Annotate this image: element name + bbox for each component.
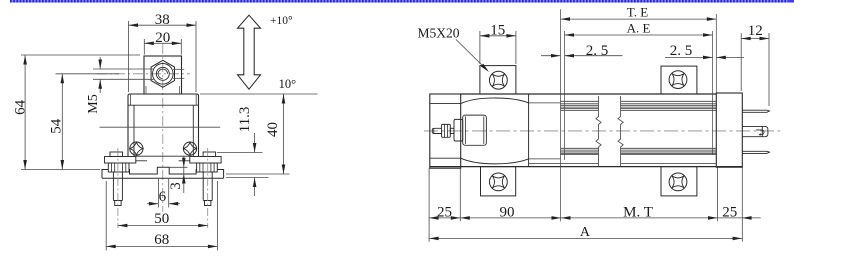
hex nut: [151, 60, 174, 87]
svg-text:15: 15: [490, 23, 505, 39]
shaft rod tip: [432, 128, 441, 133]
nut inner circle: [156, 67, 169, 80]
svg-text:20: 20: [155, 30, 170, 46]
stroke limit line right outer ext: [715, 14, 717, 93]
dim 2.5 left: [541, 55, 561, 57]
bottom clamp block right: [661, 167, 697, 196]
tilt double arrow: [238, 15, 261, 89]
left view horizontal centerline (shaft axis): [97, 73, 190, 75]
stroke limit line left outer: [560, 9, 562, 221]
nut outer circle: [153, 64, 174, 85]
top blue border line: [10, 0, 794, 2]
hex screw right (down): [202, 172, 204, 201]
svg-text:40: 40: [265, 122, 281, 137]
break line 2: [618, 96, 623, 166]
svg-text:+10°: +10°: [270, 15, 293, 27]
body bottom edge: [430, 166, 743, 168]
svg-text:54: 54: [49, 118, 65, 134]
mount bracket right: [203, 152, 216, 157]
side view axis centerline: [424, 130, 780, 132]
mount bracket left: [110, 152, 123, 157]
svg-text:12: 12: [748, 23, 763, 39]
top plate (hat): [128, 94, 199, 105]
dim A.E: [565, 34, 713, 36]
saddle right edge: [528, 94, 530, 167]
svg-text:90: 90: [500, 205, 515, 221]
top clamp screw left: [490, 71, 508, 89]
dim T.E: [561, 18, 717, 20]
saddle top arc: [461, 98, 529, 104]
svg-text:6: 6: [159, 189, 167, 205]
svg-text:25: 25: [437, 205, 452, 221]
svg-text:68: 68: [154, 232, 169, 248]
terminal pin bottom: [742, 151, 769, 153]
shaft boss: [454, 119, 463, 141]
terminal pin middle with cap: [742, 125, 764, 127]
svg-text:M. T: M. T: [623, 205, 653, 221]
bottom dim arrows: [429, 216, 439, 220]
saddle bottom arc: [461, 158, 529, 164]
svg-text:38: 38: [155, 12, 170, 28]
svg-text:M5X20: M5X20: [418, 26, 460, 41]
bottom dim extension lines: [428, 168, 430, 242]
nut flat lines right: [173, 68, 184, 70]
dim 2.5 right: [665, 56, 713, 58]
dim 12: [741, 38, 769, 40]
dim 64: [24, 55, 26, 170]
body top edge: [461, 93, 717, 95]
svg-text:T. E: T. E: [627, 5, 648, 20]
rod nut: [442, 124, 451, 137]
terminal pin top: [742, 110, 769, 112]
dim 54: [61, 74, 63, 170]
shaft thread arc: [158, 69, 168, 79]
body inner lines: [133, 105, 135, 156]
bottom clamp screw left: [490, 173, 508, 191]
dim M5: [93, 68, 154, 70]
svg-text:A: A: [580, 225, 591, 240]
dim 6: [157, 179, 159, 208]
svg-text:2. 5: 2. 5: [586, 43, 609, 59]
svg-text:3: 3: [168, 182, 184, 190]
dim 15: [480, 35, 516, 37]
svg-text:25: 25: [722, 204, 737, 220]
left end block: [430, 94, 461, 168]
dim 38: [129, 24, 197, 26]
dim 20: [144, 42, 181, 44]
stroke limit line right inner: [712, 31, 714, 155]
cross screw left (front view): [130, 142, 143, 155]
right end block: [716, 93, 742, 167]
dim 3: [169, 166, 187, 168]
base plate: [102, 167, 224, 178]
svg-text:A. E: A. E: [627, 21, 651, 36]
top clamp screw right: [669, 71, 687, 89]
svg-text:10°: 10°: [279, 77, 297, 91]
nut block (shaft housing): [144, 56, 182, 94]
dim 68: [106, 245, 217, 247]
dim 40: [283, 94, 285, 174]
guide rails: [529, 102, 561, 104]
block base chamfer ticks: [145, 86, 147, 94]
top clamp block left: [480, 66, 516, 94]
end block inner lines: [430, 103, 461, 105]
reference line through body: [100, 126, 221, 128]
cross screw right (front view): [183, 142, 196, 155]
body sides: [127, 105, 129, 156]
hat top extension line: [200, 93, 318, 95]
dim 11.3: [217, 152, 263, 154]
bottom clamp block left: [481, 167, 516, 196]
break line 1: [596, 96, 601, 166]
stroke limit line left inner: [564, 31, 566, 160]
svg-text:11.3: 11.3: [237, 107, 253, 133]
svg-text:64: 64: [12, 99, 28, 115]
hex screw left (down): [112, 172, 114, 201]
bottom dim chain line: [429, 217, 761, 219]
bottom clamp screw right: [669, 173, 687, 191]
svg-text:M5: M5: [86, 94, 101, 113]
rod segment: [450, 128, 454, 133]
hex boss (side): [463, 115, 487, 145]
top clamp block right: [661, 66, 697, 94]
svg-text:50: 50: [154, 211, 169, 227]
dim 50: [118, 225, 208, 227]
left view vertical centerline: [162, 44, 164, 212]
svg-text:2. 5: 2. 5: [670, 43, 693, 59]
dim A: [429, 237, 742, 239]
